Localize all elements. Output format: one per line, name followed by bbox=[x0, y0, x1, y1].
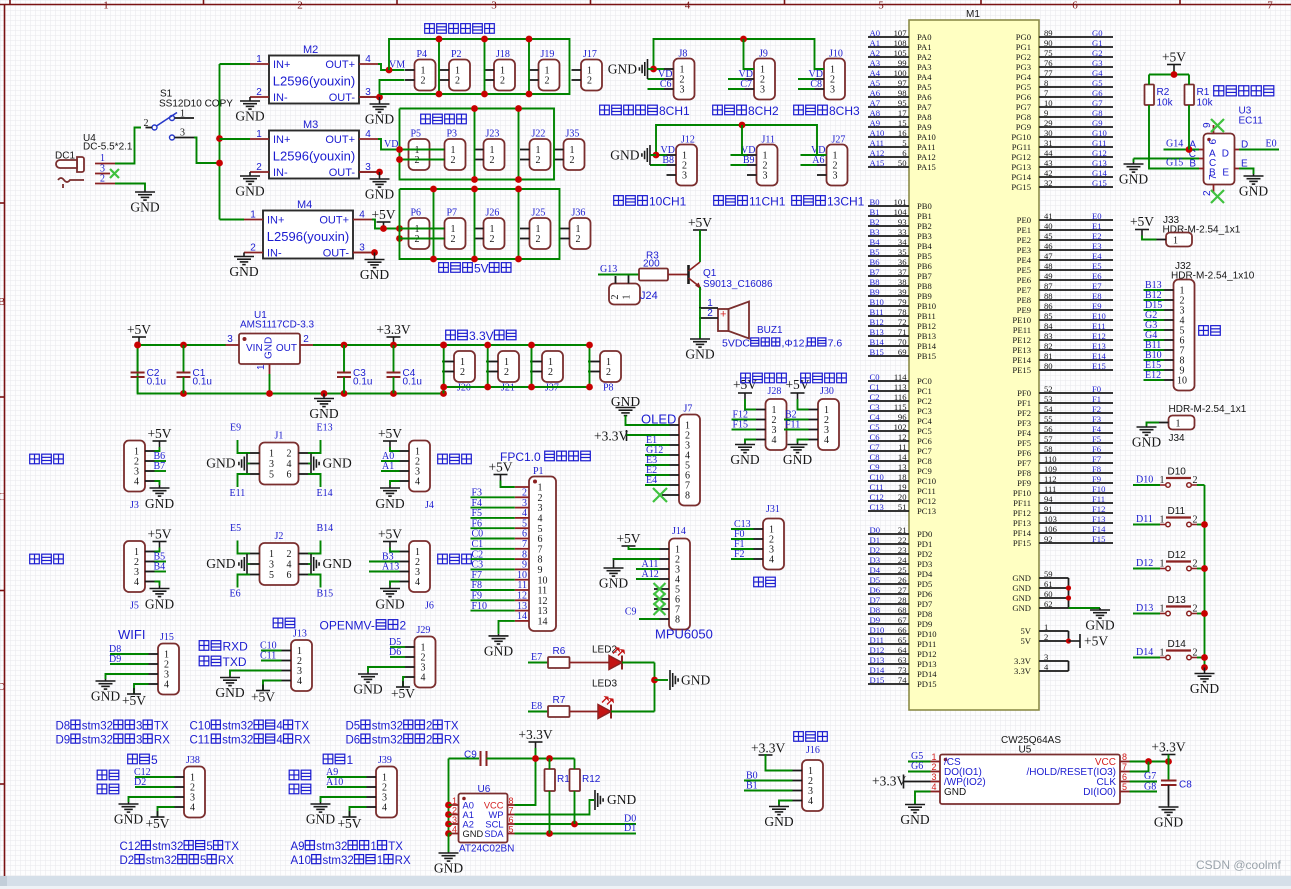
svg-text:PB4: PB4 bbox=[917, 241, 933, 251]
svg-text:12: 12 bbox=[898, 432, 907, 442]
svg-text:+3.3V: +3.3V bbox=[751, 741, 785, 756]
svg-text:R1: R1 bbox=[1197, 87, 1210, 98]
svg-text:PC2: PC2 bbox=[917, 396, 932, 406]
svg-text:D12: D12 bbox=[870, 645, 885, 655]
svg-text:PD4: PD4 bbox=[917, 569, 933, 579]
ground GND P1 pin14 bbox=[499, 621, 515, 634]
svg-text:200: 200 bbox=[643, 259, 660, 270]
svg-text:5VDC: 5VDC bbox=[722, 338, 750, 350]
svg-text:D0: D0 bbox=[870, 525, 881, 535]
ground GND J39 bbox=[321, 797, 367, 802]
svg-text:OPENMV-: OPENMV- bbox=[320, 619, 375, 633]
svg-text:PG4: PG4 bbox=[1016, 72, 1032, 82]
svg-text:PE0: PE0 bbox=[1017, 215, 1031, 225]
svg-text:DC-5.5*2.1: DC-5.5*2.1 bbox=[83, 142, 133, 153]
svg-text:PC0: PC0 bbox=[917, 376, 932, 386]
svg-text:D12: D12 bbox=[1136, 558, 1153, 569]
svg-text:4: 4 bbox=[287, 560, 292, 571]
svg-text:87: 87 bbox=[1044, 281, 1053, 291]
net labels J13 bbox=[261, 650, 282, 652]
svg-text:3: 3 bbox=[452, 815, 457, 825]
net labels J39 bbox=[327, 776, 367, 778]
svg-text:2: 2 bbox=[1193, 559, 1198, 570]
net labels J4 bbox=[381, 460, 400, 462]
svg-text:P1: P1 bbox=[533, 466, 544, 477]
svg-text:19: 19 bbox=[898, 482, 907, 492]
svg-text:2: 2 bbox=[415, 155, 420, 166]
svg-text:42: 42 bbox=[1044, 168, 1053, 178]
svg-text:+5V: +5V bbox=[337, 816, 361, 831]
svg-text:+3.3V: +3.3V bbox=[1151, 740, 1185, 755]
connector J12 bbox=[667, 135, 698, 186]
svg-text:5: 5 bbox=[200, 855, 206, 867]
svg-text:PG13: PG13 bbox=[1011, 162, 1031, 172]
svg-text:112: 112 bbox=[1044, 474, 1057, 484]
svg-text:PD0: PD0 bbox=[917, 529, 932, 539]
net E13 J1 pin2 bbox=[308, 440, 321, 453]
svg-text:G7: G7 bbox=[1092, 98, 1103, 108]
svg-text:58: 58 bbox=[1044, 444, 1053, 454]
svg-text:2: 2 bbox=[144, 118, 149, 129]
svg-text:37: 37 bbox=[898, 267, 907, 277]
svg-text:0.1u: 0.1u bbox=[193, 377, 212, 388]
svg-text:GND: GND bbox=[145, 496, 174, 511]
svg-text:J20: J20 bbox=[457, 383, 471, 394]
IC U6 AT24C02BN bbox=[452, 784, 515, 855]
connector J24 (rotated 2-pin) bbox=[609, 275, 658, 305]
label 编码器 right2 bbox=[438, 554, 472, 564]
svg-text:GND: GND bbox=[764, 814, 793, 829]
svg-text:PG5: PG5 bbox=[1016, 82, 1031, 92]
svg-text:2: 2 bbox=[545, 76, 550, 87]
net labels J28 bbox=[732, 419, 757, 421]
svg-text:PC8: PC8 bbox=[917, 456, 932, 466]
wire gnd to U3 C bbox=[1134, 158, 1200, 160]
connector J10 bbox=[815, 49, 846, 100]
wire G14 to U3 A bbox=[1164, 149, 1200, 151]
svg-text:D1: D1 bbox=[624, 823, 636, 834]
svg-text:8: 8 bbox=[1044, 78, 1048, 88]
svg-text:70: 70 bbox=[898, 337, 907, 347]
connector J7 bbox=[670, 415, 701, 506]
svg-text:92: 92 bbox=[1044, 534, 1053, 544]
svg-text:14: 14 bbox=[517, 611, 527, 622]
svg-text:J9: J9 bbox=[759, 49, 768, 60]
wire junction 3.3V row bbox=[487, 345, 489, 387]
svg-text:1: 1 bbox=[370, 841, 376, 853]
svg-text:4: 4 bbox=[134, 477, 139, 488]
svg-text:1: 1 bbox=[1044, 622, 1048, 632]
svg-text:RXD: RXD bbox=[223, 640, 249, 654]
wire junction 5V bus bbox=[518, 189, 520, 259]
svg-text:10k: 10k bbox=[1157, 98, 1174, 109]
capacitor C2 0.1u bbox=[131, 345, 166, 394]
svg-text:G11: G11 bbox=[1092, 138, 1106, 148]
svg-text:74: 74 bbox=[898, 675, 907, 685]
svg-text:64: 64 bbox=[898, 645, 907, 655]
net label B1 J16 bbox=[744, 790, 793, 792]
annotation C12/D2 bbox=[120, 841, 240, 853]
svg-text:2: 2 bbox=[587, 76, 592, 87]
svg-text:2: 2 bbox=[451, 234, 456, 245]
svg-text:8CH2: 8CH2 bbox=[748, 104, 779, 118]
svg-text:24: 24 bbox=[898, 555, 907, 565]
resistor R7 bbox=[548, 695, 570, 717]
svg-text:G13: G13 bbox=[600, 264, 617, 275]
svg-text:33: 33 bbox=[898, 227, 907, 237]
svg-text:J35: J35 bbox=[566, 129, 580, 140]
svg-text:D2: D2 bbox=[120, 855, 135, 867]
connector J4 bbox=[400, 441, 431, 492]
svg-text:90: 90 bbox=[1044, 38, 1053, 48]
svg-text:GND: GND bbox=[463, 829, 484, 839]
svg-text:J29: J29 bbox=[417, 625, 431, 636]
svg-text:GND: GND bbox=[484, 643, 513, 658]
svg-text:PC3: PC3 bbox=[917, 406, 932, 416]
svg-text:D1: D1 bbox=[870, 535, 881, 545]
svg-text:7: 7 bbox=[1208, 174, 1219, 180]
ground GND M1 bbox=[1090, 608, 1110, 618]
svg-text:A9: A9 bbox=[291, 841, 305, 853]
svg-text:PE9: PE9 bbox=[1017, 305, 1031, 315]
svg-text:IN-: IN- bbox=[273, 167, 288, 179]
svg-text:4: 4 bbox=[365, 54, 371, 65]
svg-text:OUT-: OUT- bbox=[323, 248, 350, 260]
power +5V J14 pin1 bbox=[622, 545, 636, 547]
label 步进电机 J30 bbox=[801, 373, 847, 383]
svg-text:3: 3 bbox=[931, 772, 936, 782]
svg-text:R6: R6 bbox=[553, 646, 566, 657]
svg-text:+5V: +5V bbox=[378, 426, 402, 441]
connector P7 bbox=[435, 208, 466, 250]
svg-text:TX: TX bbox=[224, 841, 239, 853]
svg-text:Q1: Q1 bbox=[703, 268, 717, 279]
svg-text:80: 80 bbox=[1044, 361, 1053, 371]
resistor R1 10k bbox=[1185, 75, 1214, 109]
svg-text:10: 10 bbox=[1177, 376, 1187, 387]
svg-text:BUZ1: BUZ1 bbox=[757, 325, 783, 336]
svg-text:53: 53 bbox=[1044, 394, 1053, 404]
svg-text:4: 4 bbox=[421, 673, 426, 684]
svg-text:PF2: PF2 bbox=[1017, 408, 1031, 418]
M1 3.3V pins bbox=[1014, 652, 1068, 676]
svg-text:IN+: IN+ bbox=[267, 215, 284, 227]
connector J20 bbox=[445, 351, 476, 394]
svg-text:91: 91 bbox=[1044, 504, 1053, 514]
wire C9 row to resistors bbox=[536, 758, 575, 760]
power +5V J30 bbox=[791, 393, 805, 399]
wire J34 gnd bbox=[1147, 423, 1160, 427]
svg-text:101: 101 bbox=[894, 197, 907, 207]
power +5V encoder bbox=[1167, 65, 1181, 71]
svg-text:+3.3V: +3.3V bbox=[376, 322, 410, 337]
svg-text:GND: GND bbox=[375, 597, 404, 612]
svg-text:M4: M4 bbox=[297, 199, 312, 211]
svg-text:PF13: PF13 bbox=[1013, 518, 1031, 528]
net labels J9 bbox=[728, 78, 745, 80]
svg-text:CSDN @coolmf: CSDN @coolmf bbox=[1196, 858, 1282, 872]
wire +5V rail bbox=[138, 343, 140, 345]
svg-text:27: 27 bbox=[898, 585, 907, 595]
svg-text:C9: C9 bbox=[625, 607, 637, 618]
svg-text:6: 6 bbox=[287, 470, 292, 481]
svg-text:M2: M2 bbox=[303, 44, 318, 56]
svg-text:F9: F9 bbox=[1092, 474, 1101, 484]
pushbutton D10 bbox=[1160, 467, 1198, 488]
svg-text:13: 13 bbox=[898, 462, 907, 472]
rotary encoder U3 EC11 bbox=[1189, 106, 1263, 197]
net label G2 J32 bbox=[1144, 319, 1165, 321]
svg-text:111: 111 bbox=[1044, 484, 1056, 494]
svg-text:3: 3 bbox=[1044, 652, 1048, 662]
svg-text:2: 2 bbox=[1193, 648, 1198, 659]
svg-text:J39: J39 bbox=[378, 755, 392, 766]
svg-text:1: 1 bbox=[452, 796, 457, 806]
svg-text:4: 4 bbox=[415, 577, 420, 588]
svg-text:6: 6 bbox=[287, 570, 292, 581]
svg-text:38: 38 bbox=[898, 277, 907, 287]
svg-text:4: 4 bbox=[359, 210, 365, 221]
wire S1 pin3 to +V rail bbox=[194, 138, 220, 164]
svg-text:5V: 5V bbox=[1020, 626, 1031, 636]
svg-text:1: 1 bbox=[931, 752, 936, 762]
connector J19 bbox=[529, 49, 560, 91]
svg-text:E6: E6 bbox=[1092, 271, 1102, 281]
svg-text:114: 114 bbox=[894, 372, 907, 382]
power +3.3V U6 bbox=[529, 742, 543, 748]
net label G7 U5 pin6 bbox=[1130, 781, 1158, 783]
svg-text:GND: GND bbox=[365, 112, 394, 127]
svg-text:PF3: PF3 bbox=[1017, 418, 1031, 428]
svg-text:57: 57 bbox=[1044, 434, 1053, 444]
pushbutton D13 bbox=[1160, 595, 1198, 616]
svg-text:E7: E7 bbox=[1092, 281, 1102, 291]
svg-text:A6: A6 bbox=[812, 155, 824, 166]
ground GND under M3 OUT- bbox=[359, 171, 380, 173]
net E11 J1 pin5 bbox=[238, 474, 251, 487]
svg-text:RX: RX bbox=[395, 855, 411, 867]
svg-text:9: 9 bbox=[1202, 122, 1213, 128]
svg-text:50: 50 bbox=[898, 158, 907, 168]
svg-text:D6: D6 bbox=[346, 735, 361, 747]
svg-text:83: 83 bbox=[1044, 331, 1053, 341]
svg-text:2: 2 bbox=[421, 76, 426, 87]
svg-text:3: 3 bbox=[760, 85, 765, 96]
svg-text:D11: D11 bbox=[1168, 506, 1186, 517]
svg-text:PB13: PB13 bbox=[917, 331, 936, 341]
svg-text:3: 3 bbox=[136, 721, 142, 733]
svg-text:96: 96 bbox=[898, 412, 907, 422]
svg-text:1: 1 bbox=[256, 364, 267, 370]
svg-text:E4: E4 bbox=[646, 475, 657, 486]
ground GND J16 bbox=[779, 801, 793, 805]
svg-text:4: 4 bbox=[931, 782, 936, 792]
svg-text:E2: E2 bbox=[1092, 231, 1102, 241]
svg-text:47: 47 bbox=[1044, 251, 1053, 261]
svg-text:28: 28 bbox=[898, 595, 907, 605]
svg-text:J30: J30 bbox=[820, 386, 834, 397]
svg-text:4: 4 bbox=[415, 477, 420, 488]
wire J33 bbox=[1142, 236, 1157, 240]
net label G12 J7 bbox=[645, 454, 670, 456]
net labels J11 bbox=[731, 154, 748, 156]
power +5V J28 bbox=[738, 393, 752, 399]
connector J35 bbox=[554, 129, 585, 171]
ground GND under M3 IN- bbox=[240, 172, 260, 184]
svg-text:PF5: PF5 bbox=[1017, 438, 1031, 448]
svg-text:E0: E0 bbox=[1092, 211, 1102, 221]
svg-text:4: 4 bbox=[1044, 662, 1049, 672]
svg-text:GND: GND bbox=[264, 337, 275, 359]
wire timer bus row1 bbox=[654, 39, 825, 69]
connector J28 bbox=[756, 399, 787, 450]
svg-text:2: 2 bbox=[490, 234, 495, 245]
svg-text:2: 2 bbox=[250, 243, 256, 254]
svg-text:TX: TX bbox=[154, 721, 169, 733]
svg-text:D14: D14 bbox=[1168, 639, 1187, 650]
label FPC1.0 循迹接口 bbox=[500, 450, 590, 464]
svg-text:stm32: stm32 bbox=[372, 735, 403, 747]
svg-text:RX: RX bbox=[294, 735, 310, 747]
wire U1 gnd rail bottom bbox=[138, 345, 444, 394]
svg-text:51: 51 bbox=[898, 502, 907, 512]
label 串口1 bbox=[323, 753, 353, 767]
svg-text:97: 97 bbox=[898, 78, 907, 88]
svg-text:VD: VD bbox=[384, 139, 398, 150]
svg-text:+5V: +5V bbox=[127, 322, 151, 337]
net labels J29 bbox=[390, 646, 405, 648]
svg-text:6: 6 bbox=[1208, 139, 1219, 145]
svg-text:108: 108 bbox=[894, 38, 907, 48]
svg-text:C3: C3 bbox=[870, 402, 880, 412]
svg-text:PE7: PE7 bbox=[1017, 285, 1032, 295]
label 步进电机 J28 bbox=[741, 373, 787, 383]
svg-text:D14: D14 bbox=[1136, 647, 1153, 658]
ground GND J13 bbox=[230, 671, 282, 676]
svg-text:1: 1 bbox=[1176, 419, 1181, 430]
svg-text:115: 115 bbox=[894, 402, 907, 412]
svg-text:5: 5 bbox=[269, 470, 274, 481]
svg-text:L2596(youxin): L2596(youxin) bbox=[273, 149, 355, 164]
svg-text:89: 89 bbox=[1044, 28, 1053, 38]
svg-text:G8: G8 bbox=[1144, 782, 1156, 793]
svg-text:PF7: PF7 bbox=[1017, 458, 1032, 468]
svg-text:stm32: stm32 bbox=[82, 721, 113, 733]
wire U5 pin7 bbox=[1130, 762, 1149, 772]
svg-text:E15: E15 bbox=[1092, 361, 1106, 371]
svg-text:PD11: PD11 bbox=[917, 639, 936, 649]
svg-text:C8: C8 bbox=[810, 79, 822, 90]
svg-text:GND: GND bbox=[375, 496, 404, 511]
svg-text:PA9: PA9 bbox=[917, 122, 932, 132]
svg-text:PB8: PB8 bbox=[917, 281, 932, 291]
wire LED common bbox=[654, 663, 656, 712]
svg-text:5: 5 bbox=[902, 138, 906, 148]
svg-text:PC13: PC13 bbox=[917, 506, 936, 516]
wire 3.3V to C9 row bbox=[535, 748, 537, 759]
svg-text:D6: D6 bbox=[389, 647, 401, 658]
svg-text:1: 1 bbox=[1173, 236, 1178, 247]
svg-text:GND: GND bbox=[206, 556, 235, 571]
net label C0 P1 pin6 bbox=[471, 538, 515, 540]
net label B13 J32 bbox=[1144, 289, 1165, 291]
svg-text:113: 113 bbox=[894, 382, 907, 392]
wire VM bus top bbox=[380, 39, 570, 94]
ground GND buttons bbox=[1195, 668, 1215, 682]
svg-text:D11: D11 bbox=[1136, 514, 1153, 525]
svg-text:E11: E11 bbox=[1092, 321, 1106, 331]
power +5V U1 rail bbox=[132, 337, 146, 343]
net E5 J2 pin1 bbox=[238, 541, 251, 554]
svg-text:E14: E14 bbox=[1092, 351, 1107, 361]
resistor R6 bbox=[548, 646, 570, 668]
svg-text:B8: B8 bbox=[662, 155, 674, 166]
svg-text:PD3: PD3 bbox=[917, 559, 932, 569]
wire 3.3V row bus top bbox=[448, 344, 590, 346]
svg-text:2: 2 bbox=[426, 735, 432, 747]
svg-text:F6: F6 bbox=[1092, 444, 1102, 454]
svg-text:TX: TX bbox=[444, 721, 459, 733]
net label B10 J32 bbox=[1144, 359, 1165, 361]
svg-text:2: 2 bbox=[287, 549, 292, 560]
svg-text:1: 1 bbox=[269, 549, 274, 560]
svg-text:J24: J24 bbox=[640, 290, 658, 302]
svg-text:PF10: PF10 bbox=[1013, 488, 1031, 498]
svg-text:GND: GND bbox=[730, 452, 759, 467]
svg-text:P7: P7 bbox=[447, 208, 458, 219]
svg-text:79: 79 bbox=[898, 297, 907, 307]
connector J8 bbox=[664, 49, 695, 100]
svg-text:2: 2 bbox=[415, 234, 420, 245]
svg-text:E5: E5 bbox=[1092, 261, 1102, 271]
svg-text:D12: D12 bbox=[1168, 550, 1187, 561]
annotation C10/C11 bbox=[190, 720, 310, 732]
svg-text:102: 102 bbox=[894, 422, 907, 432]
net label G3 J32 bbox=[1144, 329, 1165, 331]
svg-text:2: 2 bbox=[256, 162, 262, 173]
wire junction 3.3V row bbox=[443, 345, 445, 387]
svg-text:P8: P8 bbox=[603, 383, 614, 394]
svg-text:PG1: PG1 bbox=[1016, 42, 1031, 52]
buzzer BUZ1 bbox=[699, 298, 783, 339]
svg-text:G6: G6 bbox=[911, 761, 923, 772]
svg-text:stm32: stm32 bbox=[152, 841, 183, 853]
wire DC1 pin1 to switch S1 bbox=[115, 128, 141, 164]
net label F2 J31 bbox=[731, 558, 754, 560]
svg-text:PG12: PG12 bbox=[1011, 152, 1031, 162]
svg-text:EC11: EC11 bbox=[1239, 116, 1264, 127]
regulator module M2 L2596(youxin) bbox=[250, 44, 378, 104]
net label E2 J7 bbox=[645, 474, 670, 476]
wire U6 WP to gnd bbox=[515, 800, 595, 815]
svg-text:6: 6 bbox=[1072, 0, 1078, 12]
svg-text:GND: GND bbox=[130, 200, 159, 215]
wire P1 pin1 bbox=[501, 481, 515, 488]
svg-text:8CH3: 8CH3 bbox=[829, 104, 860, 118]
svg-text:10k: 10k bbox=[1197, 98, 1214, 109]
LED diode after R6 bbox=[570, 662, 610, 664]
connector P4 bbox=[405, 49, 436, 91]
svg-text:GND: GND bbox=[1012, 603, 1031, 613]
svg-text:OUT+: OUT+ bbox=[325, 134, 355, 146]
wire U6 left pins to gnd bbox=[448, 759, 450, 834]
svg-text:OUT+: OUT+ bbox=[319, 215, 349, 227]
ground GND J34 bbox=[1137, 426, 1157, 435]
svg-text:PC1: PC1 bbox=[917, 386, 932, 396]
net label F3 P1 pin2 bbox=[471, 496, 515, 498]
svg-text:A8: A8 bbox=[870, 108, 881, 118]
svg-text:D10: D10 bbox=[870, 625, 885, 635]
